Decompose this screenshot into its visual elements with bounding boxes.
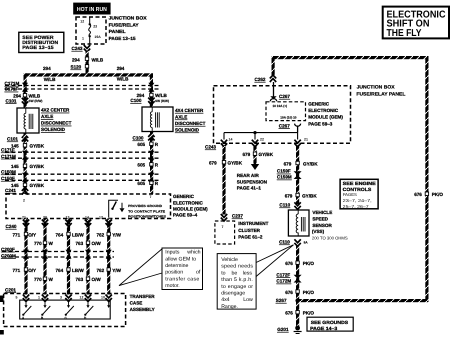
svg-text:294: 294 [43,66,51,71]
svg-text:tobeless: tobeless [221,270,252,276]
svg-text:speed needs: speed needs [221,264,253,270]
svg-text:motor.: motor. [165,283,179,289]
svg-text:GY/BK: GY/BK [30,164,45,169]
svg-text:3: 3 [60,296,62,300]
svg-text:W: W [49,277,54,282]
svg-text:C200F: C200F [1,247,15,252]
svg-text:GY/BK: GY/BK [302,193,317,198]
svg-text:SUSPENSION: SUSPENSION [237,180,268,185]
svg-text:25–7, 26–7: 25–7, 26–7 [343,204,370,209]
svg-text:O/W: O/W [92,241,102,246]
svg-text:764: 764 [56,268,64,273]
svg-text:C172M: C172M [276,279,291,284]
svg-text:SENSOR: SENSOR [312,223,332,228]
svg-text:C101: C101 [6,98,17,103]
svg-text:22: 22 [260,138,264,142]
svg-text:JUNCTION BOX: JUNCTION BOX [109,16,148,21]
svg-text:SW (R/W): SW (R/W) [29,99,43,103]
svg-text:762: 762 [97,232,105,237]
svg-text:5: 5 [16,296,18,300]
svg-text:Y/W: Y/W [112,232,121,237]
svg-text:C243: C243 [72,46,83,51]
svg-text:PAGE 13–15: PAGE 13–15 [22,45,54,51]
svg-text:PAGE 61–2: PAGE 61–2 [238,234,263,239]
svg-text:23–7, 24–7,: 23–7, 24–7, [343,198,372,203]
svg-text:PK/O: PK/O [303,290,315,295]
svg-text:MODULE (GEM): MODULE (GEM) [173,207,208,212]
svg-text:C171M: C171M [5,81,20,86]
svg-text:LB/W: LB/W [72,232,84,237]
svg-text:C267: C267 [279,94,290,99]
svg-text:C159F: C159F [277,169,291,174]
svg-text:C159M: C159M [277,175,292,180]
svg-text:200 TO 300 OHMS: 200 TO 300 OHMS [312,235,348,240]
svg-text:2: 2 [23,199,25,203]
svg-text:R: R [155,163,159,168]
svg-text:O/Y: O/Y [28,268,36,273]
svg-text:PK/O: PK/O [432,192,444,197]
svg-text:PROVIDES GROUND: PROVIDES GROUND [128,204,163,208]
svg-text:294: 294 [117,66,125,71]
svg-text:transfer case: transfer case [165,276,199,282]
svg-text:C243: C243 [205,145,216,150]
svg-text:W/LB: W/LB [92,58,104,63]
svg-text:GY/BK: GY/BK [30,144,45,149]
svg-text:605: 605 [137,142,145,147]
svg-text:C150F: C150F [1,176,15,181]
svg-text:PAGE 41–1: PAGE 41–1 [237,185,262,190]
svg-text:R: R [155,142,159,147]
svg-text:O/Y: O/Y [28,232,36,237]
svg-text:679: 679 [285,193,293,198]
svg-text:GY/BK: GY/BK [228,161,243,166]
svg-text:771: 771 [13,232,21,237]
svg-text:763: 763 [76,277,84,282]
svg-text:C237: C237 [232,214,243,219]
svg-text:C150M: C150M [1,170,16,175]
svg-text:763: 763 [76,241,84,246]
svg-text:679: 679 [209,161,217,166]
svg-text:R: R [155,181,159,186]
svg-text:7: 7 [222,225,224,229]
svg-text:W/LB: W/LB [29,93,41,98]
svg-text:positionof: positionof [165,270,201,276]
svg-text:23: 23 [93,25,97,29]
svg-text:FUSE/RELAY: FUSE/RELAY [109,22,139,27]
svg-text:145: 145 [11,164,19,169]
svg-text:C241: C241 [5,188,16,193]
svg-text:ELECTRONIC: ELECTRONIC [308,108,339,113]
svg-text:SPEED: SPEED [312,217,328,222]
svg-text:C100: C100 [130,98,141,103]
svg-text:19A (10) 10: 19A (10) 10 [280,116,297,120]
svg-text:LB/W: LB/W [72,268,84,273]
svg-text:676: 676 [285,290,293,295]
svg-text:to engage or: to engage or [221,284,253,290]
svg-text:MODULE (GEM): MODULE (GEM) [308,115,343,120]
svg-text:POSITION/SWITCHES: POSITION/SWITCHES [128,215,166,219]
svg-text:GY/BK: GY/BK [303,161,318,166]
svg-text:C171M: C171M [1,154,16,159]
svg-text:C240: C240 [6,224,17,229]
svg-text:8A: 8A [304,241,309,245]
svg-text:C172F: C172F [276,272,290,277]
svg-text:605: 605 [137,163,145,168]
svg-text:CASE: CASE [130,300,143,305]
svg-text:764: 764 [56,232,64,237]
svg-text:SW (R/W): SW (R/W) [155,99,169,103]
svg-text:TRANSFER: TRANSFER [130,294,156,299]
svg-text:TO CONTACT PLATE: TO CONTACT PLATE [128,209,165,213]
svg-text:7: 7 [150,195,152,199]
svg-text:G201: G201 [277,327,289,332]
svg-text:C201: C201 [5,287,16,292]
svg-text:1: 1 [82,37,84,41]
svg-text:676: 676 [285,311,293,316]
svg-text:GENERIC: GENERIC [173,194,195,199]
svg-text:ELECTRONIC: ELECTRONIC [173,200,204,205]
svg-text:605: 605 [137,181,145,186]
svg-text:PAGES: PAGES [343,192,357,197]
svg-text:AXLE: AXLE [175,115,187,120]
svg-text:PK/O: PK/O [303,311,315,316]
svg-text:AXLE: AXLE [41,114,53,119]
svg-text:S267: S267 [276,298,287,303]
svg-text:S120: S120 [71,65,82,70]
svg-text:DISCONNECT: DISCONNECT [41,121,72,126]
svg-text:GY/BK: GY/BK [30,183,45,188]
svg-text:679: 679 [243,152,251,157]
svg-text:PANEL: PANEL [109,29,126,34]
svg-text:HOT IN RUN: HOT IN RUN [77,6,107,13]
svg-text:12: 12 [99,215,103,219]
svg-text:W/LB: W/LB [155,93,167,98]
svg-text:ASSEMBLY: ASSEMBLY [130,307,155,312]
svg-text:VEHICLE: VEHICLE [312,210,332,215]
svg-text:GENERIC: GENERIC [308,101,330,106]
svg-text:10: 10 [101,296,105,300]
svg-text:4x4Low: 4x4Low [221,297,253,303]
svg-text:12: 12 [80,296,84,300]
svg-text:Inputswhich: Inputswhich [165,250,200,256]
svg-text:PAGE 59–3: PAGE 59–3 [308,121,333,126]
svg-text:SEE GROUNDS: SEE GROUNDS [311,320,348,325]
svg-text:C110: C110 [279,240,290,245]
svg-text:1: 1 [38,296,40,300]
svg-text:REAR AIR: REAR AIR [237,173,260,178]
svg-text:676: 676 [285,261,293,266]
svg-text:C110: C110 [279,203,290,208]
svg-text:W: W [49,241,54,246]
svg-text:C262: C262 [255,77,266,82]
svg-text:Range.: Range. [221,304,238,310]
svg-text:FUSE/RELAY PANEL: FUSE/RELAY PANEL [356,91,405,97]
svg-text:C200M: C200M [1,253,16,258]
svg-text:19A: 19A [94,35,101,39]
svg-text:disengage: disengage [221,291,245,297]
svg-text:676: 676 [414,192,422,197]
svg-text:PAGE 13–15: PAGE 13–15 [109,36,136,41]
svg-text:14: 14 [229,138,233,142]
svg-text:C171F: C171F [5,87,19,92]
svg-text:Y/W: Y/W [112,268,121,273]
svg-text:21: 21 [304,138,308,142]
svg-text:CLUSTER: CLUSTER [238,228,260,233]
svg-text:770: 770 [34,277,42,282]
svg-text:4X4 CENTER: 4X4 CENTER [175,108,204,113]
svg-text:allow GEM to: allow GEM to [165,256,196,262]
svg-text:SOLENOID: SOLENOID [41,127,66,132]
svg-text:W/LB: W/LB [44,77,56,82]
svg-text:INSTRUMENT: INSTRUMENT [238,221,268,226]
svg-text:SOLENOID: SOLENOID [175,128,200,133]
svg-text:GY/BK: GY/BK [259,152,274,157]
svg-text:C267: C267 [279,123,290,128]
svg-text:(VSS): (VSS) [312,229,325,234]
svg-text:771: 771 [13,268,21,273]
svg-text:PK/O: PK/O [303,261,315,266]
svg-text:294: 294 [72,58,80,63]
svg-text:PAGE 59–4: PAGE 59–4 [173,213,198,218]
svg-text:JUNCTION BOX: JUNCTION BOX [357,85,396,91]
svg-text:770: 770 [34,241,42,246]
svg-text:DISCONNECT: DISCONNECT [175,121,206,126]
svg-text:762: 762 [97,268,105,273]
svg-text:than 5 k.p.h.: than 5 k.p.h. [221,277,253,283]
svg-text:determine: determine [165,263,188,269]
svg-text:SEE ENGINE: SEE ENGINE [343,181,376,186]
svg-text:W/LB: W/LB [117,77,129,82]
svg-text:4X2 CENTER: 4X2 CENTER [41,108,70,113]
svg-text:PAGE 14–3: PAGE 14–3 [310,326,338,331]
svg-text:O/W: O/W [92,277,102,282]
svg-text:12: 12 [80,20,84,24]
svg-text:THE FLY: THE FLY [387,28,422,39]
svg-text:C171F: C171F [1,148,15,153]
svg-text:679: 679 [284,161,292,166]
svg-text:C100: C100 [133,136,144,141]
svg-text:Vehicle: Vehicle [221,257,238,263]
svg-text:C101: C101 [7,137,18,142]
svg-text:10 19A (+): 10 19A (+) [273,104,288,108]
